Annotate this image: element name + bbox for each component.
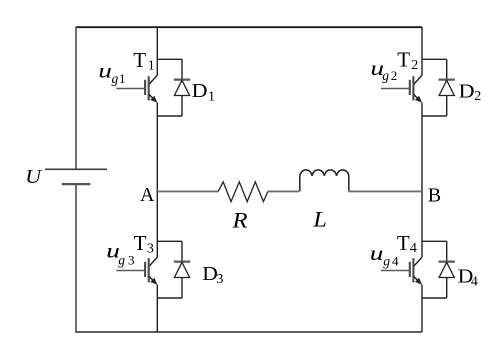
wire right leg middle (T2 emitter through node B to T4) (421, 103, 423, 258)
wire T2 collector branch to D2 (422, 58, 447, 60)
wire T4 collector branch to D4 (422, 240, 447, 242)
wire T1 collector branch to D1 (157, 58, 182, 60)
wire right leg bottom (T4 emitter to bottom bus) (421, 285, 423, 332)
svg-text:R: R (231, 209, 247, 233)
svg-text:g: g (118, 252, 125, 267)
svg-text:T: T (397, 48, 410, 72)
transistor T4 (381, 257, 422, 285)
svg-text:D: D (459, 79, 475, 102)
svg-text:B: B (428, 185, 441, 207)
wire left leg middle (T1 emitter through node A to T3) (156, 103, 158, 258)
wire top bus (76, 26, 422, 28)
battery U positive plate (45, 168, 107, 170)
svg-text:4: 4 (410, 241, 417, 256)
svg-text:3: 3 (216, 272, 223, 287)
wire T3 collector branch to D3 (157, 240, 182, 242)
wire node A to resistor (157, 190, 218, 192)
wire T2 emitter branch to D2 (422, 115, 447, 117)
diode D4 (439, 241, 455, 298)
svg-text:D: D (192, 79, 208, 102)
svg-text:T: T (133, 48, 146, 72)
svg-text:g: g (382, 68, 389, 83)
wire left bus upper (to battery +) (75, 27, 77, 170)
svg-text:2: 2 (474, 89, 481, 104)
wire resistor to inductor (268, 190, 299, 192)
wire T1 emitter branch to D1 (157, 115, 182, 117)
transistor T3 (116, 257, 157, 285)
svg-text:4: 4 (471, 275, 478, 290)
resistor R (218, 182, 268, 202)
transistor T1 (116, 75, 157, 103)
wire inductor to node B (349, 190, 423, 192)
svg-text:T: T (397, 231, 410, 255)
svg-text:3: 3 (128, 252, 135, 267)
svg-text:4: 4 (392, 254, 399, 269)
wire left leg bottom (T3 emitter to bottom bus) (156, 285, 158, 332)
wire left bus lower (from battery -) (75, 184, 77, 333)
inductor L (300, 170, 349, 191)
transistor T2 (381, 75, 422, 103)
diode D3 (174, 241, 190, 298)
battery U negative plate (62, 183, 91, 185)
svg-text:1: 1 (208, 90, 215, 105)
wire T3 emitter branch to D3 (157, 297, 182, 299)
svg-text:T: T (134, 231, 147, 255)
svg-text:g: g (383, 254, 390, 269)
svg-text:1: 1 (119, 71, 126, 86)
svg-text:3: 3 (147, 241, 154, 256)
svg-text:u: u (370, 242, 384, 265)
svg-text:A: A (140, 184, 155, 206)
wire T4 emitter branch to D4 (422, 297, 447, 299)
svg-text:u: u (98, 59, 112, 82)
wire bottom bus (76, 331, 422, 333)
svg-text:1: 1 (148, 59, 155, 74)
svg-text:2: 2 (391, 68, 398, 83)
svg-text:L: L (312, 207, 327, 232)
diode D2 (439, 59, 455, 116)
wire left leg top (bus to T1) (156, 27, 158, 75)
svg-text:2: 2 (411, 58, 418, 73)
diode D1 (174, 59, 190, 116)
svg-text:U: U (25, 167, 43, 188)
svg-text:g: g (112, 71, 119, 86)
wire right leg top (bus to T2) (421, 27, 423, 75)
